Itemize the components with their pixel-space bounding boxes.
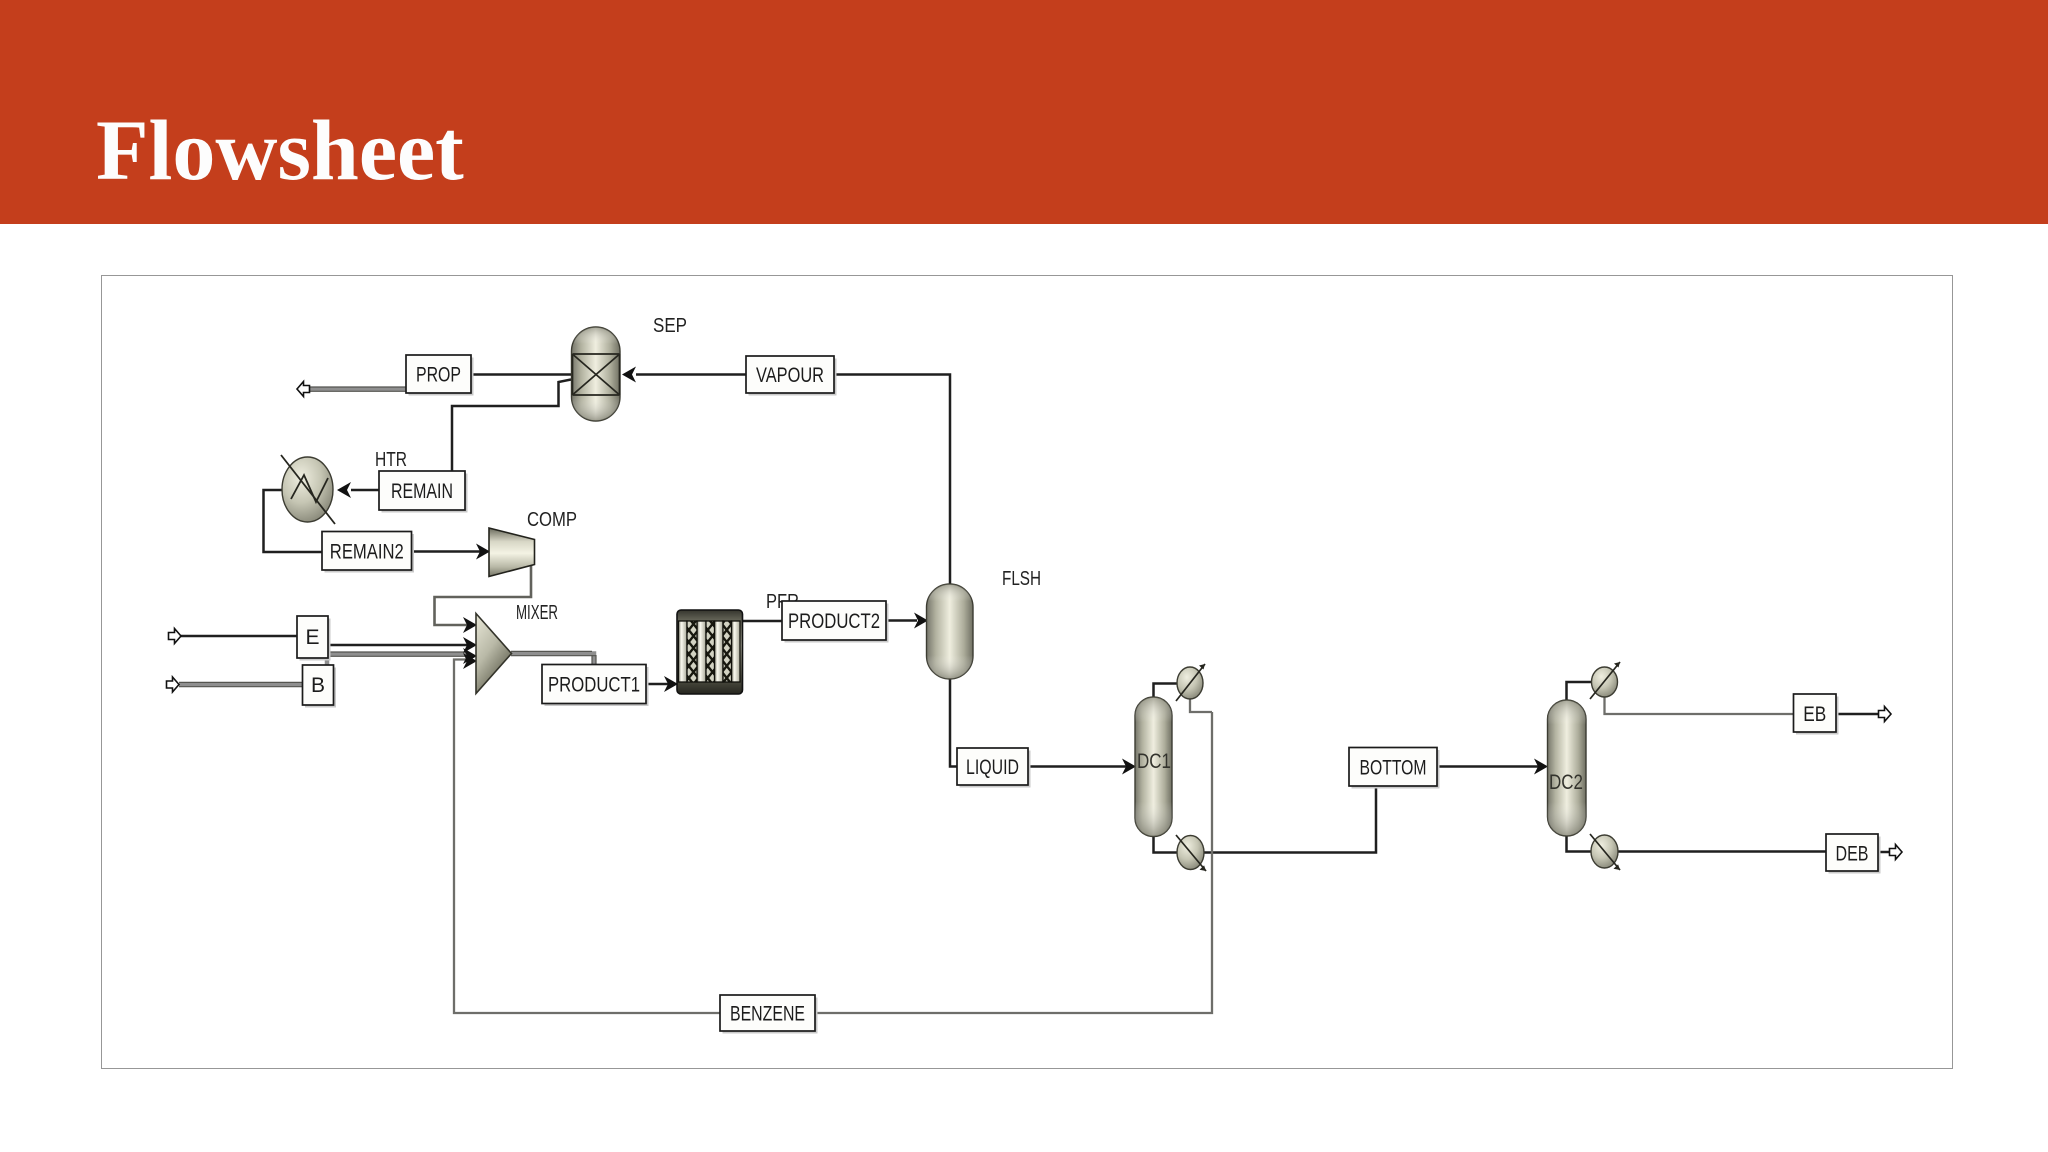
svg-text:BOTTOM: BOTTOM: [1360, 757, 1427, 780]
svg-text:PROP: PROP: [416, 364, 461, 387]
svg-text:REMAIN2: REMAIN2: [330, 540, 404, 563]
svg-text:HTR: HTR: [375, 449, 407, 471]
svg-text:COMP: COMP: [527, 509, 577, 531]
svg-text:VAPOUR: VAPOUR: [756, 364, 824, 387]
svg-text:DC1: DC1: [1137, 750, 1171, 773]
svg-text:FLSH: FLSH: [1002, 568, 1041, 590]
svg-text:B: B: [311, 674, 325, 697]
svg-text:BENZENE: BENZENE: [730, 1003, 805, 1026]
svg-text:LIQUID: LIQUID: [966, 756, 1019, 779]
svg-text:PRODUCT1: PRODUCT1: [548, 674, 640, 697]
svg-text:SEP: SEP: [653, 315, 687, 337]
svg-text:E: E: [305, 626, 319, 649]
svg-text:REMAIN: REMAIN: [391, 480, 453, 503]
svg-text:DEB: DEB: [1836, 843, 1869, 866]
svg-text:EB: EB: [1803, 703, 1826, 726]
svg-text:MIXER: MIXER: [516, 602, 558, 624]
svg-text:DC2: DC2: [1549, 771, 1583, 794]
svg-text:PRODUCT2: PRODUCT2: [788, 610, 880, 633]
